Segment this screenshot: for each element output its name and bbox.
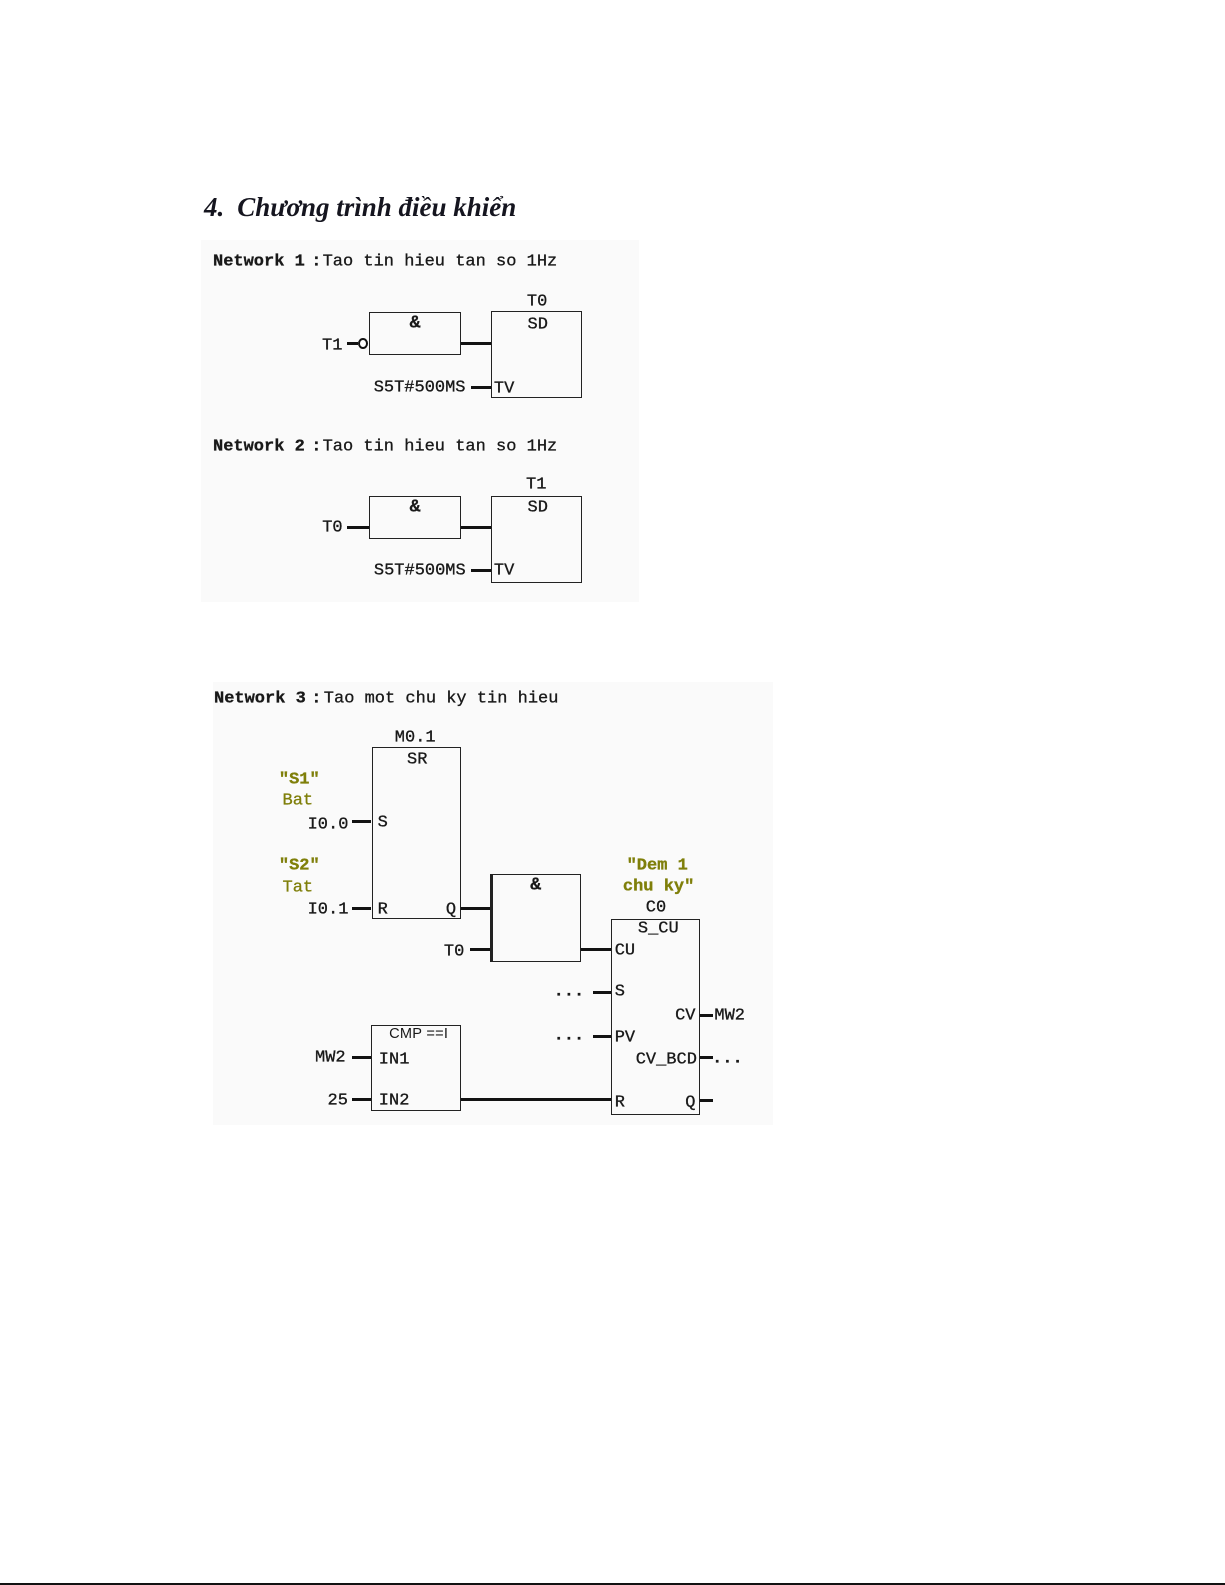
value 25: [328, 1092, 348, 1109]
network 3 header: [214, 690, 306, 707]
wire TV N2: [471, 569, 491, 572]
label & N1: [369, 314, 461, 332]
panel network 1-2 background: [201, 240, 639, 602]
wire and-to-timer N2: [461, 526, 491, 529]
pin S of counter: [615, 984, 625, 1001]
wire IN1: [352, 1056, 371, 1059]
panel network 3 background: [213, 682, 773, 1125]
comment Tat: [283, 879, 314, 896]
symbol chu ky" (line 2): [623, 878, 694, 895]
value S5T#500MS N2: [374, 562, 466, 579]
pin R of counter: [615, 1094, 625, 1111]
wire T1 dash: [347, 342, 358, 345]
pin IN2: [379, 1092, 410, 1109]
node C0 label: [646, 900, 666, 917]
value S5T#500MS N1: [374, 379, 466, 396]
timer SD box T0: [491, 311, 582, 398]
wire PV pin: [593, 1035, 611, 1038]
dots before PV pin: [554, 1027, 585, 1044]
pin CU: [615, 943, 635, 960]
label SD N2: [528, 499, 548, 516]
pin TV N1: [494, 380, 514, 397]
wire T0 input N2: [347, 526, 369, 529]
pin IN1: [379, 1051, 410, 1068]
label CMP ==I: [389, 1027, 448, 1042]
node MW2 input label: [315, 1049, 346, 1066]
pin CV_BCD: [636, 1051, 697, 1068]
node M0.1 label: [395, 730, 436, 747]
timer T1 label: [526, 476, 546, 493]
pin Q of counter: [685, 1094, 695, 1111]
footer rule: [0, 1583, 1225, 1585]
comment Bat: [283, 792, 314, 809]
wire CV_BCD stub: [700, 1056, 713, 1059]
section title: [204, 194, 516, 221]
label SR: [407, 751, 427, 768]
label & N2: [369, 498, 461, 516]
pin CV: [675, 1007, 695, 1024]
wire S pin: [593, 991, 611, 994]
counter S_CU box C0: [611, 919, 700, 1115]
symbol "Dem 1 (line 1): [627, 857, 688, 874]
wire CV output: [700, 1014, 714, 1017]
dots before S pin: [554, 984, 585, 1001]
wire TV N1: [471, 386, 491, 389]
network 1 header: [213, 254, 305, 271]
node T0 input label N2: [322, 519, 342, 536]
pin R of SR: [378, 901, 388, 918]
wire IN2: [352, 1098, 371, 1101]
symbol "S1": [279, 771, 320, 788]
and-gate box N3: [490, 874, 581, 962]
label S_CU: [638, 921, 679, 938]
wire and-gate to CU: [581, 948, 611, 951]
wire CMP output to R: [461, 1098, 611, 1101]
symbol "S2": [279, 857, 320, 874]
label SD N1: [528, 317, 548, 334]
wire R input: [352, 907, 372, 910]
node T0 input N3: [444, 944, 464, 961]
wire Q to and-gate: [461, 907, 490, 910]
label & N3: [490, 876, 581, 894]
timer SD box T1: [491, 496, 582, 583]
negation circle: [358, 338, 368, 350]
network 2 header: [213, 438, 305, 455]
SR flip-flop box M0.1: [372, 747, 462, 919]
pin TV N2: [494, 562, 514, 579]
pin Q of SR: [446, 901, 456, 918]
pin S of SR: [378, 815, 388, 832]
timer T0 label: [527, 293, 547, 310]
wire and-to-timer N1: [461, 342, 491, 345]
node T1 input label: [322, 338, 342, 355]
and-gate box N1: [369, 312, 461, 355]
pin PV: [615, 1029, 635, 1046]
wire S input: [352, 820, 372, 823]
and-gate box N2: [369, 496, 461, 539]
wire Q stub: [700, 1099, 714, 1102]
node I0.1: [308, 901, 349, 918]
wire T0 to and-gate N3: [470, 948, 490, 951]
dots after CV_BCD: [712, 1050, 743, 1067]
comparator box CMP ==I: [371, 1025, 461, 1110]
node MW2 output label: [714, 1007, 745, 1024]
node I0.0: [308, 816, 349, 833]
